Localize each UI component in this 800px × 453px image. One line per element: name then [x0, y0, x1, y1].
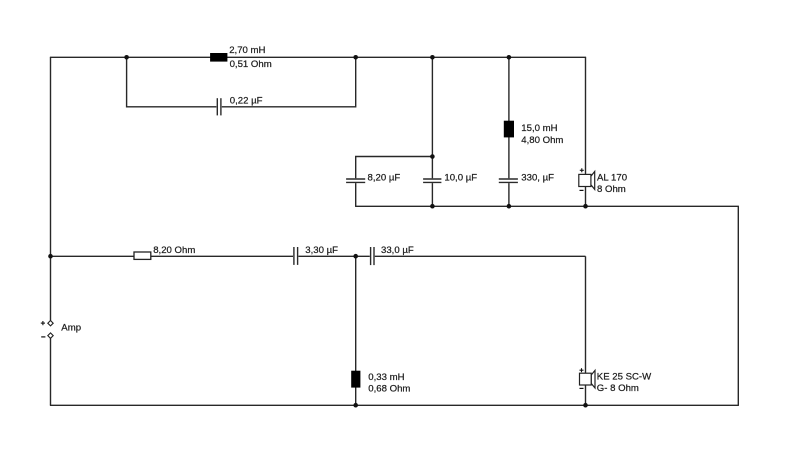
- amp terminal plus: [41, 321, 53, 326]
- wire mid rail segment 1: [50, 255, 293, 257]
- svg-text:KE 25 SC-W: KE 25 SC-W: [597, 371, 652, 382]
- wire right vertical: [737, 206, 739, 405]
- svg-text:33,0 µF: 33,0 µF: [381, 245, 414, 256]
- svg-text:0,22 µF: 0,22 µF: [230, 95, 263, 106]
- wire C1 branch down-left: [127, 57, 217, 107]
- node junction 0.33mH bottom: [353, 403, 358, 408]
- node junction 8.2uF tee: [430, 154, 435, 159]
- resistor R1 8,20 Ohm: [134, 252, 151, 259]
- wire 15mH branch upper: [508, 57, 510, 178]
- svg-text:0,33 mH: 0,33 mH: [368, 372, 404, 383]
- svg-text:330, µF: 330, µF: [521, 173, 554, 184]
- capacitor C4 8,20 uF: [346, 179, 365, 182]
- svg-text:2,70 mH: 2,70 mH: [229, 45, 265, 56]
- node junction 10uF top: [430, 55, 435, 60]
- inductor L1 2,70 mH: [210, 53, 227, 62]
- speaker AL 170: [579, 168, 595, 190]
- svg-text:0,51 Ohm: 0,51 Ohm: [230, 59, 272, 70]
- svg-text:G- 8 Ohm: G- 8 Ohm: [597, 383, 639, 394]
- wire sub rail: [355, 205, 739, 207]
- capacitor C3 33,0 uF: [371, 247, 374, 265]
- node junction C1 return: [353, 55, 358, 60]
- wire 10uF branch upper: [431, 57, 433, 178]
- svg-text:Amp: Amp: [61, 323, 81, 334]
- wire left vertical upper: [50, 57, 52, 320]
- wire mid rail segment 2: [298, 255, 369, 257]
- wire C1 branch right-up: [222, 57, 356, 107]
- node junction 15mH bottom: [507, 204, 512, 209]
- capacitor C5 10,0 uF: [423, 179, 441, 182]
- svg-text:8,20 µF: 8,20 µF: [368, 173, 401, 184]
- node junction top-left: [124, 55, 129, 60]
- wire AL170 vertical: [585, 57, 587, 206]
- svg-text:AL 170: AL 170: [597, 173, 627, 184]
- node junction 10uF bottom: [430, 204, 435, 209]
- capacitor C2 3,30 uF: [294, 247, 298, 265]
- svg-text:15,0 mH: 15,0 mH: [521, 123, 557, 134]
- wire mid rail segment 3: [375, 255, 586, 257]
- wire left vertical lower: [50, 338, 52, 405]
- wire KE25 vertical: [585, 256, 587, 405]
- speaker KE 25 SC-W: [580, 368, 596, 388]
- node junction mid branch: [353, 254, 358, 259]
- wire bottom rail: [50, 404, 739, 406]
- wire 15mH branch lower: [508, 183, 510, 206]
- node junction 15mH top: [507, 55, 512, 60]
- capacitor C1 0,22 uF: [217, 98, 221, 115]
- svg-text:10,0 µF: 10,0 µF: [444, 173, 477, 184]
- node junction KE25 bottom: [583, 403, 588, 408]
- node junction amp tap: [48, 254, 53, 259]
- inductor L2 15,0 mH: [504, 121, 514, 138]
- wire 0.33mH vertical: [355, 256, 357, 405]
- wire 8.2uF branch bottom: [355, 183, 357, 206]
- wire 8.2uF branch top: [356, 157, 433, 179]
- node junction AL170 bottom: [583, 204, 588, 209]
- wire top rail: [50, 56, 586, 58]
- wire 10uF branch lower: [431, 183, 433, 206]
- svg-text:8 Ohm: 8 Ohm: [597, 184, 626, 195]
- capacitor C6 330 uF: [499, 179, 518, 182]
- inductor L3 0,33 mH: [351, 371, 360, 388]
- svg-text:8,20 Ohm: 8,20 Ohm: [153, 245, 195, 256]
- svg-text:3,30 µF: 3,30 µF: [305, 245, 338, 256]
- svg-text:4,80 Ohm: 4,80 Ohm: [521, 135, 563, 146]
- svg-text:0,68 Ohm: 0,68 Ohm: [368, 384, 410, 395]
- amp terminal minus: [41, 333, 53, 338]
